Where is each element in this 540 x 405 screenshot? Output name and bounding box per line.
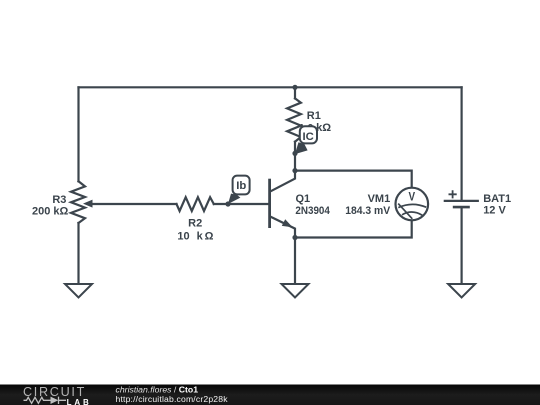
wire right vertical (top rail to BAT1 +) [461, 87, 463, 200]
junction dot (emitter node) [292, 235, 297, 240]
wire collector node to VM1 top [295, 171, 412, 188]
svg-text:V: V [409, 189, 416, 203]
Q1 emitter arrow [282, 219, 293, 227]
VM1 body circle [396, 188, 429, 221]
junction dot (R1 top / top rail) [292, 85, 297, 90]
VM1 meter big arc [398, 204, 426, 207]
resistor R2 zigzag [177, 197, 214, 211]
svg-text:10: 10 [177, 230, 189, 242]
svg-text:R2: R2 [188, 218, 202, 230]
ground (middle, under Q1 emitter) [282, 284, 309, 298]
junction dot (collector node) [292, 168, 297, 173]
wire top rail [79, 86, 462, 88]
svg-text:IC: IC [303, 131, 314, 143]
BAT1 plus sign [449, 190, 457, 198]
BAT1 short negative plate [453, 206, 470, 209]
svg-text:VM1: VM1 [368, 193, 391, 205]
footer bar [0, 385, 540, 405]
CircuitLab logo mini diode [51, 397, 59, 404]
ground (left, under R3) [65, 284, 92, 298]
svg-text:LAB: LAB [67, 398, 92, 405]
svg-text:2N3904: 2N3904 [295, 205, 330, 217]
resistor R1 top lead [294, 87, 296, 98]
wire emitter node to ground [294, 238, 296, 285]
battery BAT1 [444, 190, 479, 207]
svg-text:BAT1: BAT1 [483, 193, 511, 205]
resistor R1 zigzag [287, 98, 301, 141]
junction dot (Ib probe tap) [225, 201, 230, 206]
svg-text:R1: R1 [307, 110, 321, 122]
svg-text:200 kΩ: 200 kΩ [32, 205, 69, 217]
BAT1 long positive plate [444, 200, 479, 202]
probe Ib box [233, 176, 250, 195]
CircuitLab logo mini resistor [24, 397, 51, 403]
VM1 needle [398, 204, 412, 219]
wire R2 to Q1 base [214, 203, 269, 205]
transistor Q1 [270, 171, 295, 238]
svg-text:christian.flores / Cto1: christian.flores / Cto1 [116, 384, 199, 394]
R3 wiper arrow [83, 200, 93, 208]
svg-text:184.3 mV: 184.3 mV [345, 205, 391, 217]
svg-text:12 V: 12 V [483, 204, 506, 216]
voltmeter VM1 [396, 188, 429, 221]
probe IC box [300, 126, 317, 143]
probe IC pointer [295, 142, 308, 154]
VM1 meter small arc [402, 212, 423, 215]
Q1 base bar [268, 179, 271, 228]
svg-text:Q1: Q1 [296, 193, 311, 205]
wire left vertical (top rail to R3) [77, 87, 79, 181]
wire R3 wiper to R2 [90, 203, 177, 205]
ground (right, under BAT1) [448, 284, 475, 298]
resistor R1 bottom lead to collector node [294, 142, 296, 171]
svg-text:http://circuitlab.com/cr2p28k: http://circuitlab.com/cr2p28k [116, 394, 229, 404]
svg-text:kΩ: kΩ [197, 230, 214, 242]
svg-text:R3: R3 [52, 194, 66, 206]
probe Ib pointer [228, 194, 240, 204]
Q1 emitter lead [270, 216, 295, 237]
wire VM1 bottom to emitter node [295, 220, 412, 237]
resistor R3 zigzag [71, 181, 85, 223]
wire BAT1 - to ground [461, 208, 463, 284]
Q1 collector lead [270, 171, 295, 192]
junction dot (IC probe tap) [292, 151, 297, 156]
svg-text:Ib: Ib [236, 180, 246, 192]
svg-text:kΩ: kΩ [316, 122, 331, 134]
wire R3 to ground [77, 223, 79, 284]
